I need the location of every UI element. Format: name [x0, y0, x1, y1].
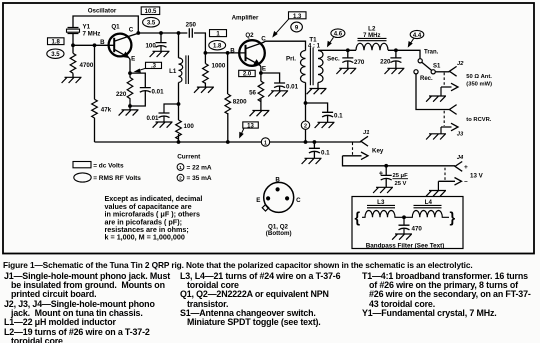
- svg-text:100: 100: [145, 42, 156, 49]
- svg-text:L2: L2: [368, 26, 376, 33]
- svg-text:220: 220: [380, 59, 391, 66]
- resistor 1000: [203, 64, 209, 84]
- sleeve arrow J3: [441, 123, 458, 133]
- wire T1 secondary bottom to ground: [317, 83, 319, 89]
- svg-text:Bandpass Filter (See Text): Bandpass Filter (See Text): [366, 242, 445, 249]
- wire feedback loop crystal top to collector node: [73, 16, 138, 33]
- svg-text:C: C: [129, 27, 134, 34]
- arrow from 4.6 to secondary wire: [328, 37, 334, 46]
- svg-text:13: 13: [247, 123, 254, 129]
- svg-text:1.8: 1.8: [52, 39, 61, 45]
- capacitor 0.01 Q1 emitter: [140, 88, 151, 93]
- svg-text:J3: J3: [457, 131, 464, 137]
- capacitor 100 oscillator: [156, 43, 167, 48]
- resistor 56: [258, 81, 264, 101]
- svg-text:{: {: [355, 210, 361, 226]
- transistor Q2: [239, 40, 265, 66]
- ground J3 sleeve: [426, 134, 446, 140]
- wire Q1 emitter network: [129, 58, 145, 110]
- ground 4700: [62, 77, 82, 83]
- svg-text:0.01: 0.01: [146, 115, 159, 122]
- svg-text:(Bottom): (Bottom): [266, 230, 292, 237]
- svg-text:2.0: 2.0: [243, 72, 252, 78]
- wire 270 cap branch: [347, 50, 349, 68]
- switch S1: [414, 59, 435, 74]
- ground 1000: [194, 87, 214, 93]
- svg-text:(350 mW): (350 mW): [466, 81, 492, 87]
- wire key sleeve to 13V rail: [343, 156, 456, 166]
- svg-text:250: 250: [186, 22, 197, 29]
- svg-text:0.01: 0.01: [152, 89, 165, 96]
- crystal Y1: [67, 28, 80, 34]
- svg-text:L4: L4: [425, 199, 433, 206]
- svg-text:L3: L3: [377, 199, 385, 206]
- svg-text:Pri.: Pri.: [286, 56, 296, 63]
- value ellipse 1.8: [209, 41, 226, 50]
- wire 0.1 rail cap branch: [313, 142, 315, 158]
- svg-text:4.4: 4.4: [413, 33, 422, 39]
- capacitor 250 series: [189, 28, 192, 37]
- svg-text:k = 1,000, M = 1,000,000: k = 1,000, M = 1,000,000: [105, 233, 185, 242]
- svg-text:100: 100: [184, 123, 195, 130]
- wire S1 common to J2: [435, 71, 449, 73]
- svg-text:4.6: 4.6: [334, 32, 343, 38]
- capacitor 270: [342, 58, 353, 63]
- svg-text:J4: J4: [457, 155, 464, 161]
- svg-text:0.01: 0.01: [286, 84, 299, 91]
- value box 13: [243, 122, 258, 128]
- svg-text:Q1: Q1: [111, 23, 120, 30]
- transistor Q1: [109, 33, 139, 57]
- resistor 100 above rail: [176, 120, 182, 139]
- ground 25uF: [373, 187, 393, 193]
- svg-text:E: E: [256, 197, 260, 204]
- capacitor 0.1 upper: [322, 112, 333, 117]
- transistor pinout Q1 Q2 bottom view: [262, 182, 293, 212]
- capacitor 220: [390, 58, 401, 63]
- capacitor 0.01 near L1: [164, 104, 179, 122]
- svg-text:0.1: 0.1: [334, 112, 343, 119]
- svg-text:= RMS RF Volts: = RMS RF Volts: [93, 175, 141, 182]
- svg-text:Oscillator: Oscillator: [88, 8, 117, 15]
- svg-text:56: 56: [249, 89, 256, 96]
- jack J3: [449, 105, 456, 115]
- svg-text:7 MHz: 7 MHz: [83, 31, 101, 38]
- ground 0.01 near L1: [153, 122, 173, 128]
- svg-text:L1: L1: [169, 68, 177, 75]
- ground 220: [385, 68, 405, 74]
- ground J4 sleeve: [426, 191, 446, 197]
- meter circle 2 on T1 primary return: [301, 121, 309, 129]
- dashed link J3: [443, 111, 445, 126]
- resistor 220: [127, 78, 133, 103]
- svg-text:= 35 mA: = 35 mA: [187, 175, 212, 182]
- svg-text:3.5: 3.5: [147, 21, 156, 27]
- svg-text:C: C: [296, 197, 301, 204]
- wire bottom rail: [95, 141, 361, 143]
- svg-text:+: +: [379, 169, 384, 178]
- svg-text:1: 1: [179, 165, 182, 171]
- svg-text:= dc Volts: = dc Volts: [93, 162, 124, 169]
- inductor L3: [362, 205, 404, 217]
- value box .3: [146, 62, 162, 68]
- value ellipse 4.4: [410, 30, 424, 38]
- dashed link J2: [443, 73, 445, 86]
- value ellipse 9: [291, 22, 303, 32]
- sleeve arrow J4: [438, 178, 461, 191]
- svg-text:1.8: 1.8: [213, 44, 222, 50]
- ground Q1 emitter network: [119, 110, 139, 116]
- junction nodes: [71, 31, 406, 219]
- svg-text:S1: S1: [433, 64, 441, 70]
- svg-text:J2: J2: [457, 61, 464, 67]
- svg-text:Y1: Y1: [83, 24, 91, 31]
- svg-text:8200: 8200: [233, 99, 247, 106]
- svg-text:Key: Key: [372, 147, 384, 154]
- ground 0.1 upper: [315, 122, 335, 128]
- legend dc volts box: [73, 162, 91, 168]
- jack J2: [449, 66, 456, 76]
- svg-text:to RCVR.: to RCVR.: [466, 117, 492, 123]
- arrow from 1.3 box to collector wire: [273, 19, 289, 37]
- wire L1 branch: [178, 33, 180, 142]
- arrow from 4.4 to switch wire: [408, 39, 413, 47]
- value box 1.3: [289, 12, 307, 19]
- sleeve arrow J2: [441, 83, 458, 96]
- arrow from 13 box to rail: [240, 129, 244, 138]
- ground 470: [392, 234, 412, 240]
- svg-text:B: B: [275, 177, 280, 184]
- capacitor 470: [403, 217, 405, 233]
- svg-text:13 V: 13 V: [470, 173, 484, 180]
- value box 2.0: [239, 70, 256, 76]
- svg-text:1.3: 1.3: [293, 14, 302, 20]
- ground 56: [250, 111, 270, 117]
- wire collector line top: [138, 33, 245, 53]
- ground J2 sleeve: [426, 96, 446, 102]
- svg-text:9: 9: [295, 25, 299, 31]
- svg-text:2: 2: [179, 176, 182, 182]
- wire 1000 resistor branch: [204, 53, 206, 87]
- jack J4: [455, 162, 462, 172]
- svg-text:Current: Current: [177, 153, 201, 160]
- wire 25uF branch: [385, 166, 387, 187]
- capacitor 0.1 on rail: [309, 148, 320, 153]
- inductor L4: [404, 205, 449, 217]
- ground T1 secondary: [307, 89, 327, 95]
- svg-text:}: }: [450, 210, 456, 226]
- dashed link J4: [444, 168, 446, 180]
- wire 0.1 upper cap branch: [306, 103, 328, 122]
- value box 10.5: [141, 7, 160, 15]
- svg-text:J1: J1: [363, 130, 369, 136]
- inductor L1: [179, 55, 189, 84]
- svg-text:E: E: [262, 66, 266, 73]
- svg-text:C: C: [261, 36, 266, 43]
- wire base node down through 47k to rail: [94, 45, 96, 142]
- meter circle 1 on rail: [261, 138, 269, 146]
- capacitor 0.01 Q2 emitter: [274, 83, 285, 88]
- svg-text:= 22 mA: = 22 mA: [187, 164, 212, 171]
- svg-text:Sec.: Sec.: [327, 56, 340, 63]
- wire 4700 branch: [72, 45, 74, 77]
- svg-text:4700: 4700: [80, 62, 94, 69]
- bandpass filter box: [352, 197, 463, 249]
- sleeve arrow J1 key: [343, 152, 369, 160]
- parts list column 1: [4, 272, 184, 343]
- wire base line to Q1: [73, 44, 114, 46]
- figure caption: [3, 261, 540, 270]
- resistor 8200: [225, 94, 231, 114]
- svg-text:Rec.: Rec.: [420, 76, 433, 82]
- border frame: [3, 3, 534, 254]
- svg-text:50 Ω Ant.: 50 Ω Ant.: [466, 74, 492, 80]
- value ellipse 3.5: [143, 17, 160, 27]
- svg-text:270: 270: [354, 59, 365, 66]
- svg-text:+: +: [464, 164, 468, 171]
- dashed link J1: [352, 143, 354, 155]
- legend rms ellipse: [74, 173, 91, 182]
- ground 0.1 rail: [302, 158, 322, 164]
- ground 270: [336, 68, 356, 74]
- transformer T1: [301, 48, 324, 86]
- svg-text:2: 2: [304, 124, 307, 130]
- value ellipse 3.5 at base node: [47, 49, 64, 58]
- svg-text:47k: 47k: [101, 106, 112, 113]
- parts list column 3: [362, 272, 540, 319]
- svg-text:1000: 1000: [212, 62, 226, 69]
- svg-text:Tran.: Tran.: [424, 50, 439, 56]
- value box 1.8 at base node: [48, 38, 65, 45]
- svg-text:Amplifier: Amplifier: [232, 15, 259, 22]
- arrow from .3 box to emitter node: [135, 68, 145, 72]
- svg-text:−: −: [464, 179, 468, 186]
- wire T1 secondary to L2 line: [318, 50, 420, 58]
- svg-text:3.5: 3.5: [51, 52, 60, 58]
- ground 100 cap: [150, 51, 170, 57]
- svg-text:B: B: [230, 47, 235, 54]
- svg-text:.3: .3: [151, 64, 157, 70]
- value box 1: [210, 30, 227, 37]
- wire 100 cap branch: [160, 33, 162, 51]
- inductor L2: [356, 38, 388, 50]
- svg-text:E: E: [131, 56, 135, 63]
- svg-text:470: 470: [412, 225, 423, 232]
- svg-text:7 MHz: 7 MHz: [363, 33, 380, 39]
- wire crystal bottom to base node: [72, 34, 74, 46]
- parts list column 2: [180, 272, 364, 328]
- wire 8200 branch: [227, 53, 229, 142]
- resistor 47k: [92, 99, 98, 118]
- svg-text:220: 220: [116, 91, 127, 98]
- svg-text:T1: T1: [309, 36, 317, 43]
- resistor 4700: [70, 53, 76, 73]
- wire S1 rec to J3: [416, 74, 449, 110]
- jack J1 key: [361, 136, 368, 146]
- wire T1 primary bottom: [305, 83, 307, 143]
- wire 220 cap branch: [395, 50, 397, 68]
- svg-text:0.1: 0.1: [321, 149, 330, 156]
- wire Q2 collector to T1: [264, 41, 306, 50]
- wire Q2 emitter network: [260, 65, 280, 110]
- value ellipse 4.6: [331, 29, 345, 38]
- svg-text:25 μF: 25 μF: [393, 173, 409, 179]
- ground 0.01 Q2: [268, 91, 288, 97]
- svg-text:25 V: 25 V: [395, 181, 407, 187]
- svg-text:10.5: 10.5: [145, 9, 157, 15]
- svg-text:4 : 1: 4 : 1: [308, 44, 321, 50]
- svg-text:B: B: [100, 39, 105, 46]
- svg-text:1: 1: [264, 140, 267, 146]
- svg-text:Q2: Q2: [245, 32, 254, 39]
